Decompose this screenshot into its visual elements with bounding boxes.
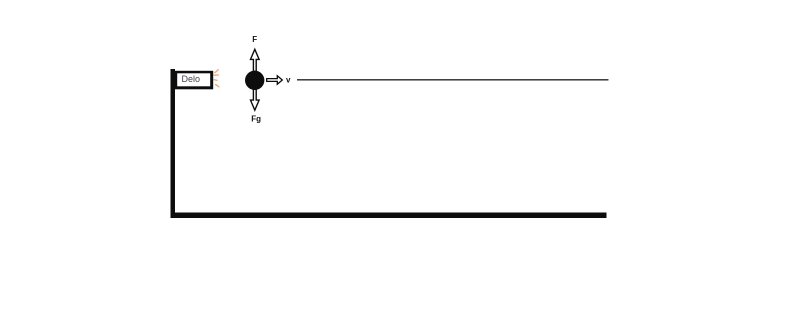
svg-text:Fg: Fg	[251, 114, 261, 123]
svg-text:Delo: Delo	[182, 74, 201, 84]
svg-text:v: v	[286, 75, 291, 84]
svg-text:F: F	[252, 35, 257, 44]
